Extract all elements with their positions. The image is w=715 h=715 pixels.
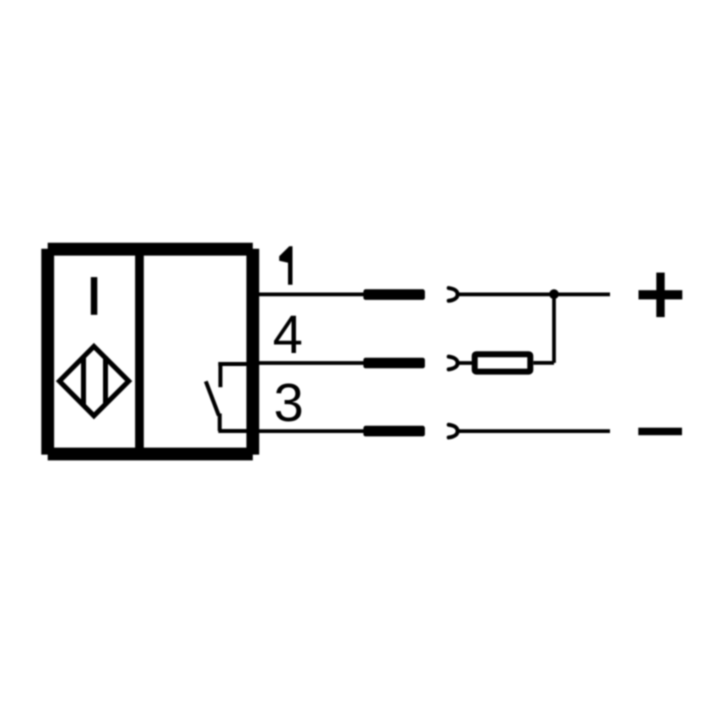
- switch S1 bottom lead (pin 3 side): [218, 429, 250, 433]
- inductive sensor diamond symbol: [59, 346, 128, 415]
- diamond inner line left: [81, 357, 86, 406]
- sensor box U1 outline right edge: [246, 249, 259, 455]
- wire junction branch vertical: [552, 294, 556, 363]
- wire resistor to junction: [533, 361, 554, 365]
- cable sleeve on wire 4: [363, 358, 425, 369]
- wire pin1 from connector to plus terminal: [458, 293, 611, 297]
- wire connector to load resistor: [458, 361, 473, 365]
- sensor box U1 outline left edge: [41, 249, 54, 455]
- sensor box U1 outline top edge: [48, 243, 253, 256]
- sensor box U1 outline bottom edge: [48, 448, 253, 461]
- switch S1 blade (open contact): [206, 381, 219, 415]
- wire pin3 from box to cable sleeve: [259, 429, 364, 433]
- junction dot node: [549, 289, 559, 299]
- switch S1 fixed contact post: [218, 362, 222, 387]
- wire pin3 from connector to minus terminal: [458, 429, 611, 433]
- wire pin1 from box to cable sleeve: [259, 293, 364, 297]
- connector socket symbol wire 1: [449, 288, 458, 301]
- connector socket symbol wire 4: [449, 357, 458, 370]
- switch S1 top lead (pin 4 side): [218, 362, 250, 366]
- wire pin4 from box to cable sleeve: [259, 361, 364, 365]
- connector socket symbol wire 3: [449, 425, 458, 438]
- svg-text:3: 3: [274, 373, 304, 433]
- switch S1 bottom post: [218, 414, 222, 432]
- cable sleeve on wire 3: [363, 426, 425, 437]
- pin label 1: [279, 246, 292, 284]
- minus terminal bar: [638, 428, 682, 436]
- plus terminal horizontal bar: [639, 290, 683, 299]
- sensor box internal divider: [135, 252, 144, 451]
- svg-text:4: 4: [273, 305, 303, 365]
- plus terminal vertical bar: [656, 273, 664, 318]
- diamond inner line right: [103, 357, 108, 406]
- cable sleeve on wire 1: [363, 289, 425, 300]
- indicator bar I: [91, 277, 98, 315]
- load resistor R1: [475, 354, 531, 371]
